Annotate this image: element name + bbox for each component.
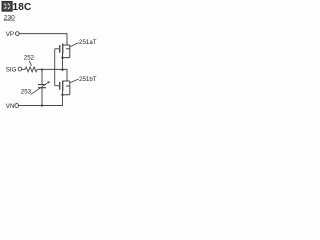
junction dot VN/cap [41, 104, 43, 106]
svg-text:252: 252 [24, 54, 35, 61]
svg-text:253: 253 [21, 88, 32, 95]
wire SIG rail to gate column and T2 drain [37, 69, 67, 81]
wire VP rail [19, 34, 67, 45]
capacitor 253 bottom wire [41, 88, 43, 106]
svg-text:SIG: SIG [6, 66, 17, 73]
capacitor 253 bottom plate [38, 87, 46, 89]
svg-text:251aT: 251aT [79, 39, 97, 46]
title glyph ZU (figure) drawn box [2, 2, 12, 11]
drain top lead [63, 44, 70, 46]
leader 252 [29, 61, 31, 66]
terminal VN circle [15, 104, 19, 108]
gate bar [59, 82, 61, 90]
capacitor 253 top plate [38, 84, 46, 86]
wire SIG lead [22, 68, 25, 70]
bulk tick [66, 85, 70, 87]
drain top lead [63, 80, 70, 82]
bulk tick [66, 48, 70, 50]
variable capacitor arrow [31, 82, 49, 95]
junction dot SIG/cap [41, 68, 43, 70]
bulk strap right vertical [69, 45, 71, 58]
gate bar [59, 45, 61, 53]
wire T2 source to VN rail [62, 95, 64, 106]
leader 251bT [70, 79, 78, 83]
transistor 251a [60, 44, 70, 58]
junction dot T2 source [61, 94, 63, 96]
channel bar [62, 44, 64, 55]
channel bar [62, 81, 64, 92]
svg-text:251bT: 251bT [79, 76, 97, 83]
wire VN rail [19, 104, 63, 106]
wire T1 gate lead [55, 48, 60, 50]
svg-text:18C: 18C [13, 2, 32, 13]
wire gate rail [54, 49, 56, 86]
resistor 252 [25, 67, 37, 72]
bulk strap right vertical [69, 81, 71, 95]
terminal VP circle [15, 32, 19, 36]
wire mid node vertical [62, 58, 64, 70]
junction dot SIG/mid [61, 69, 63, 71]
svg-text:VN: VN [6, 103, 15, 110]
capacitor 253 branch top wire [41, 70, 43, 85]
svg-text:VP: VP [6, 31, 14, 38]
junction dot T1 source [61, 57, 63, 59]
source bottom jog [63, 91, 70, 95]
wire T2 gate lead [55, 85, 60, 87]
terminal SIG circle [18, 67, 22, 71]
leader 251aT [70, 43, 78, 47]
transistor 251b [60, 81, 70, 95]
source bottom jog [63, 54, 70, 58]
